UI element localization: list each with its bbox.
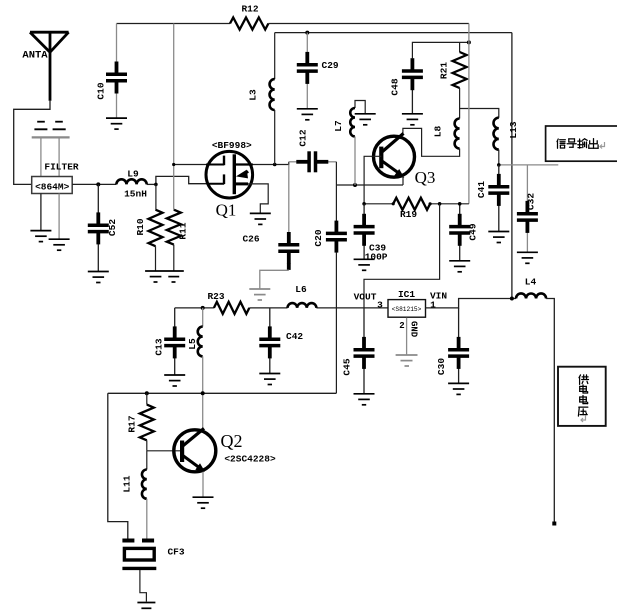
capacitor C20	[326, 221, 347, 253]
ground	[49, 239, 70, 250]
wire L9 to gate jog	[147, 183, 156, 185]
node L5 junction	[201, 306, 205, 310]
capacitor C12	[289, 161, 297, 163]
antenna ANTA	[30, 32, 69, 101]
svg-text:R21: R21	[439, 62, 450, 79]
wire Q3 emitter lead	[402, 176, 404, 185]
wire Q2 base lead	[147, 450, 182, 452]
wire IC1 GND pin	[406, 318, 408, 355]
ground	[164, 375, 185, 386]
node L7 junction	[353, 183, 357, 187]
capacitor C10	[116, 24, 118, 62]
wire CF3 case to ground	[140, 570, 147, 602]
svg-text:CF3: CF3	[167, 547, 184, 558]
svg-text:C29: C29	[322, 60, 339, 71]
svg-text:R17: R17	[127, 415, 138, 432]
node Q2 collector junction	[201, 391, 205, 395]
wire gate2 lead	[174, 164, 225, 166]
svg-text:C20: C20	[313, 229, 324, 246]
resistor R12	[230, 18, 268, 30]
svg-text:C42: C42	[286, 331, 303, 342]
svg-text:L5: L5	[187, 338, 198, 350]
transistor Q2 <2SC4228> NPN	[174, 430, 216, 472]
filter shield caps above box	[32, 136, 70, 138]
wire VIN to L4	[425, 299, 516, 308]
svg-text:2: 2	[399, 321, 404, 331]
inductor L3	[274, 33, 276, 80]
signal output box	[546, 126, 617, 161]
svg-text:C32: C32	[526, 193, 537, 210]
capacitor C52	[97, 184, 99, 212]
wire R10 top lead	[155, 184, 157, 209]
filter FL1 <864M> box	[32, 177, 72, 194]
capacitor C29	[306, 33, 308, 53]
wire R12 branch vertical	[468, 24, 470, 204]
svg-text:C41: C41	[476, 181, 487, 198]
ground	[106, 118, 127, 129]
ground	[30, 231, 51, 242]
resistor R10	[149, 210, 163, 246]
node C41 junction	[497, 163, 501, 167]
node L4 left junction	[510, 297, 514, 301]
node C29 junction	[305, 31, 309, 35]
wire R17 to base	[146, 440, 148, 451]
wire emitter line	[336, 184, 403, 186]
ground	[354, 259, 375, 270]
svg-text:Q3: Q3	[415, 168, 436, 187]
capacitor C49	[459, 204, 461, 214]
node R17 junction	[145, 391, 149, 395]
svg-text:ANTA: ANTA	[22, 50, 48, 62]
svg-text:3: 3	[377, 300, 383, 311]
svg-text:C52: C52	[107, 219, 118, 236]
svg-text:C48: C48	[390, 78, 401, 95]
wire Q3 base lead	[364, 156, 381, 204]
ground	[250, 213, 271, 224]
svg-text:1: 1	[430, 300, 436, 311]
VOUT line	[175, 307, 214, 309]
label supply voltage	[579, 375, 589, 385]
resistor R23	[214, 302, 249, 314]
wire C26 to ground	[287, 264, 291, 270]
node C52 junction	[96, 182, 100, 186]
ground	[402, 114, 423, 125]
ground	[193, 497, 214, 508]
svg-text:FILTER: FILTER	[44, 162, 79, 173]
wire C20 bottom to VOUT line	[335, 252, 337, 393]
wire R12 supply line	[117, 23, 231, 25]
wire R11 bottom lead	[173, 245, 175, 271]
ground shared R10 R11	[145, 271, 184, 282]
svg-text:100P: 100P	[365, 252, 388, 263]
ground	[448, 383, 469, 394]
inductor L9 15nH	[116, 179, 146, 184]
wire L13 output line	[499, 164, 559, 166]
wire filter shield pins	[40, 137, 42, 176]
ground	[259, 374, 280, 385]
inductor L7	[355, 101, 365, 114]
wire antenna to filter	[14, 101, 50, 185]
svg-text:Q2: Q2	[221, 431, 243, 451]
inductor L5	[202, 308, 204, 327]
node R19 right	[438, 202, 442, 206]
wire Q1 drain lead	[234, 162, 288, 165]
svg-text:<864M>: <864M>	[35, 181, 70, 192]
capacitor C32	[526, 165, 528, 201]
svg-text:R11: R11	[178, 222, 189, 239]
svg-text:15nH: 15nH	[124, 189, 147, 200]
wire filter output to L9	[72, 183, 116, 185]
capacitor C13	[174, 308, 176, 327]
svg-text:R10: R10	[135, 218, 146, 235]
svg-text:C26: C26	[242, 234, 259, 245]
svg-text:Q1: Q1	[216, 201, 237, 220]
ground	[449, 261, 470, 272]
supply rail vertical right	[511, 33, 513, 299]
capacitor C42	[269, 308, 271, 327]
wire Q1 source to ground	[248, 184, 268, 214]
ground	[297, 109, 318, 120]
wire R10 bottom lead	[155, 246, 157, 271]
svg-text:C45: C45	[342, 358, 353, 375]
ground	[88, 272, 109, 283]
bias line lower	[108, 392, 337, 394]
wire bias vertical from R12 line	[173, 24, 175, 210]
svg-text:C13: C13	[154, 338, 165, 355]
wire left leg to CF3	[108, 393, 128, 538]
resistor R21	[459, 42, 461, 52]
wire L4 to supply	[546, 299, 554, 525]
resistor R19	[364, 203, 393, 205]
wire gate1 jog	[156, 176, 225, 184]
svg-text:GND: GND	[409, 321, 419, 338]
capacitor C30	[458, 308, 460, 337]
wire Q2 emitter to ground	[202, 472, 204, 497]
wire R21 bottom to L8/L13	[459, 88, 461, 119]
svg-text:L3: L3	[248, 89, 259, 101]
ground	[488, 232, 509, 243]
supply voltage box	[558, 367, 606, 426]
inductor L4	[516, 293, 546, 298]
node R19 left	[362, 202, 366, 206]
wire filter ground pin left	[40, 194, 42, 231]
wire L5 to Q2 collector	[202, 356, 204, 430]
crystal filter CF3	[122, 539, 154, 543]
wire filter ground pin right	[58, 194, 60, 240]
svg-text:L7: L7	[333, 120, 344, 132]
ground	[355, 114, 376, 125]
node R10 junction	[154, 183, 158, 187]
svg-text:C30: C30	[436, 358, 447, 375]
transistor Q3 NPN	[374, 136, 415, 177]
svg-text:C49: C49	[468, 223, 479, 240]
ground	[517, 252, 538, 263]
svg-text:L13: L13	[508, 121, 519, 138]
svg-text:<2SC4228>: <2SC4228>	[224, 454, 276, 465]
svg-text:C10: C10	[96, 82, 107, 99]
capacitor C41	[498, 165, 500, 174]
wire C12 to C20 vertical	[335, 162, 337, 221]
svg-text:L9: L9	[127, 169, 139, 180]
resistor R11	[167, 210, 181, 245]
IC1 S81215 regulator box	[388, 300, 426, 318]
ground	[354, 394, 375, 405]
supply rail upper	[275, 32, 512, 34]
transistor Q1 <BF998> dual-gate MOSFET	[206, 151, 253, 198]
wire C12 to C26 vertical	[288, 165, 290, 233]
svg-text:VOUT: VOUT	[354, 292, 377, 303]
ground	[137, 603, 155, 609]
inductor L8	[455, 119, 460, 149]
node R21 top junction	[467, 40, 471, 44]
svg-text:R23: R23	[207, 291, 224, 302]
svg-text:R19: R19	[400, 209, 417, 220]
svg-text:L6: L6	[295, 284, 307, 295]
capacitor C26	[278, 232, 299, 264]
capacitor C45	[363, 308, 365, 337]
ground	[396, 355, 418, 366]
label signal output	[557, 139, 565, 148]
inductor L6	[288, 303, 317, 308]
svg-text:C12: C12	[298, 129, 309, 146]
capacitor C48	[411, 90, 413, 114]
svg-text:L8: L8	[433, 126, 444, 138]
wire L8 bottom to Q3 collector	[403, 128, 460, 156]
ground	[249, 289, 270, 300]
svg-text:R12: R12	[241, 4, 258, 15]
svg-text:L11: L11	[122, 475, 133, 492]
svg-text:<S81215>: <S81215>	[392, 306, 422, 313]
wire R19 to VOUT leg	[364, 204, 440, 308]
svg-text:L4: L4	[525, 277, 537, 288]
svg-text:<BF998>: <BF998>	[212, 140, 252, 151]
capacitor C39 100P	[363, 204, 365, 214]
svg-text:IC1: IC1	[398, 289, 415, 300]
inductor L11	[146, 451, 148, 470]
inductor L13	[493, 118, 498, 150]
resistor R17	[146, 393, 148, 404]
